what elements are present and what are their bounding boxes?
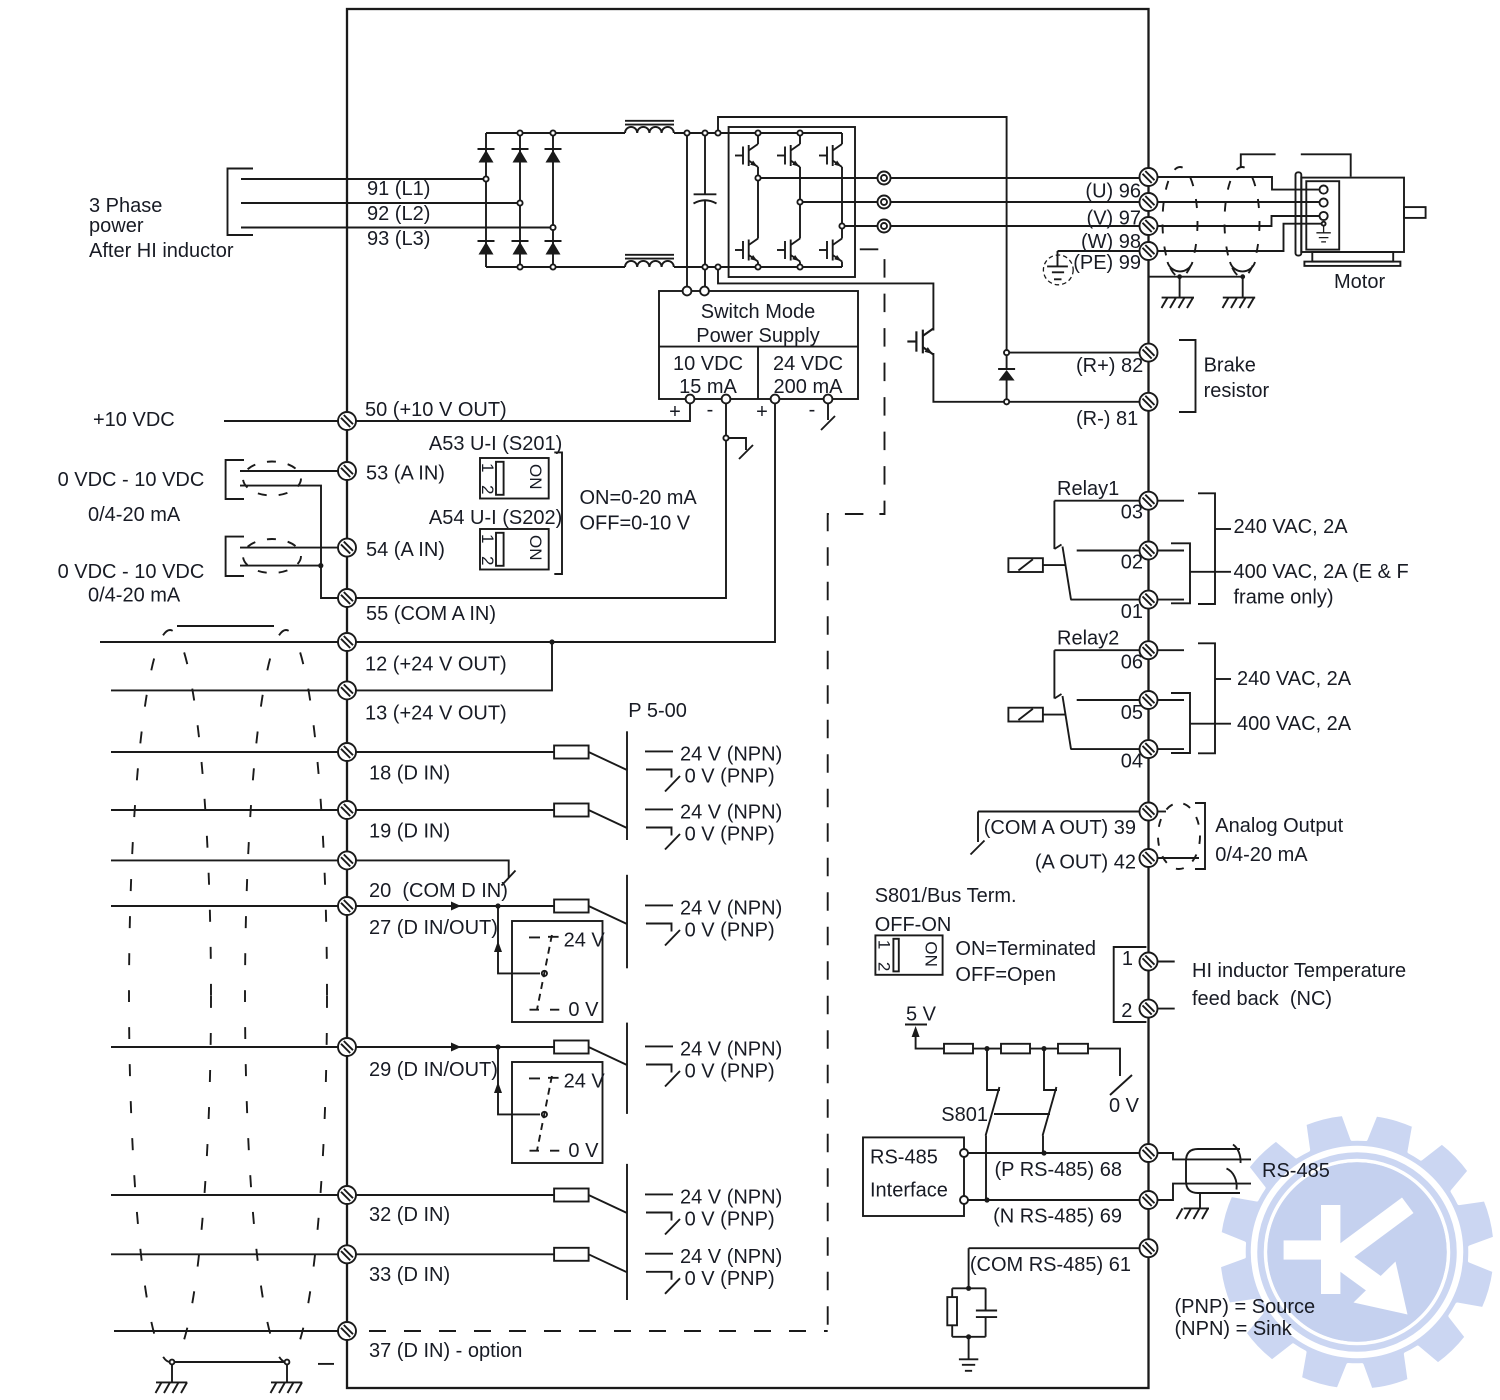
- svg-text:93 (L3): 93 (L3): [367, 228, 430, 250]
- svg-text:-: -: [809, 399, 816, 421]
- svg-text:240 VAC, 2A: 240 VAC, 2A: [1237, 668, 1352, 690]
- svg-text:ON: ON: [526, 464, 545, 490]
- svg-text:(W) 98: (W) 98: [1081, 231, 1141, 253]
- svg-text:(R+) 82: (R+) 82: [1076, 355, 1143, 377]
- svg-text:0 VDC - 10 VDC: 0 VDC - 10 VDC: [58, 561, 205, 583]
- svg-text:+: +: [756, 401, 768, 423]
- svg-text:24 VDC: 24 VDC: [773, 353, 843, 375]
- svg-text:(U) 96: (U) 96: [1085, 181, 1141, 203]
- svg-text:24 V (NPN): 24 V (NPN): [680, 1187, 782, 1209]
- svg-text:0 V (PNP): 0 V (PNP): [685, 920, 775, 942]
- svg-text:37 (D IN) - option: 37 (D IN) - option: [369, 1340, 522, 1362]
- svg-text:(NPN) = Sink: (NPN) = Sink: [1175, 1318, 1293, 1340]
- svg-text:2: 2: [1121, 1000, 1132, 1022]
- svg-text:Analog Output: Analog Output: [1215, 815, 1343, 837]
- svg-text:Power Supply: Power Supply: [696, 325, 819, 347]
- svg-text:(A OUT) 42: (A OUT) 42: [1035, 852, 1136, 874]
- svg-text:0 V: 0 V: [568, 1140, 599, 1162]
- svg-text:-: -: [707, 399, 714, 421]
- svg-text:0 V (PNP): 0 V (PNP): [685, 824, 775, 846]
- svg-text:(PNP) = Source: (PNP) = Source: [1175, 1296, 1316, 1318]
- svg-text:S801: S801: [941, 1104, 988, 1126]
- svg-text:2: 2: [874, 962, 893, 971]
- svg-text:Motor: Motor: [1334, 271, 1385, 293]
- svg-text:0 V: 0 V: [1109, 1095, 1140, 1117]
- svg-text:resistor: resistor: [1204, 380, 1270, 402]
- svg-text:(COM RS-485) 61: (COM RS-485) 61: [970, 1254, 1131, 1276]
- svg-text:Relay2: Relay2: [1057, 628, 1119, 650]
- svg-text:(PE) 99: (PE) 99: [1073, 252, 1141, 274]
- svg-text:27 (D IN/OUT): 27 (D IN/OUT): [369, 917, 498, 939]
- svg-text:After HI inductor: After HI inductor: [89, 240, 234, 262]
- svg-text:3 Phase: 3 Phase: [89, 195, 162, 217]
- svg-text:05: 05: [1121, 702, 1143, 724]
- svg-text:32 (D IN): 32 (D IN): [369, 1204, 450, 1226]
- svg-text:92 (L2): 92 (L2): [367, 203, 430, 225]
- svg-text:24 V (NPN): 24 V (NPN): [680, 1039, 782, 1061]
- svg-text:2: 2: [478, 556, 497, 565]
- svg-text:0 V (PNP): 0 V (PNP): [685, 1209, 775, 1231]
- svg-text:33 (D IN): 33 (D IN): [369, 1264, 450, 1286]
- svg-text:2: 2: [478, 485, 497, 494]
- svg-text:Switch Mode: Switch Mode: [701, 301, 816, 323]
- svg-text:Interface: Interface: [870, 1180, 948, 1202]
- svg-text:13 (+24 V OUT): 13 (+24 V OUT): [365, 703, 507, 725]
- svg-text:ON=Terminated: ON=Terminated: [955, 938, 1096, 960]
- svg-text:29 (D IN/OUT): 29 (D IN/OUT): [369, 1059, 498, 1081]
- svg-text:200 mA: 200 mA: [774, 376, 844, 398]
- svg-text:18 (D IN): 18 (D IN): [369, 763, 450, 785]
- svg-text:240 VAC, 2A: 240 VAC, 2A: [1234, 516, 1349, 538]
- svg-text:+: +: [669, 401, 681, 423]
- svg-text:RS-485: RS-485: [1262, 1160, 1330, 1182]
- svg-text:400 VAC, 2A: 400 VAC, 2A: [1237, 713, 1352, 735]
- svg-text:0 V: 0 V: [568, 999, 599, 1021]
- svg-text:1: 1: [1122, 948, 1133, 970]
- svg-text:+10 VDC: +10 VDC: [93, 409, 175, 431]
- svg-text:(R-) 81: (R-) 81: [1076, 408, 1138, 430]
- svg-text:OFF=Open: OFF=Open: [955, 964, 1056, 986]
- svg-text:0 V (PNP): 0 V (PNP): [685, 766, 775, 788]
- svg-text:RS-485: RS-485: [870, 1147, 938, 1169]
- svg-text:24 V (NPN): 24 V (NPN): [680, 802, 782, 824]
- svg-text:10 VDC: 10 VDC: [673, 353, 743, 375]
- svg-text:50 (+10 V OUT): 50 (+10 V OUT): [365, 399, 507, 421]
- svg-text:400 VAC, 2A (E & F: 400 VAC, 2A (E & F: [1234, 561, 1409, 583]
- svg-text:53 (A IN): 53 (A IN): [366, 463, 445, 485]
- svg-text:1: 1: [874, 940, 893, 949]
- svg-text:24 V (NPN): 24 V (NPN): [680, 744, 782, 766]
- svg-text:ON=0-20 mA: ON=0-20 mA: [580, 487, 698, 509]
- svg-text:1: 1: [478, 463, 497, 472]
- svg-text:24 V: 24 V: [564, 930, 606, 952]
- svg-text:feed back (NC): feed back (NC): [1192, 988, 1332, 1010]
- svg-text:0/4-20 mA: 0/4-20 mA: [88, 504, 181, 526]
- svg-text:P 5-00: P 5-00: [628, 700, 687, 722]
- svg-text:ON: ON: [526, 535, 545, 561]
- svg-text:0 VDC - 10 VDC: 0 VDC - 10 VDC: [58, 469, 205, 491]
- svg-text:54 (A IN): 54 (A IN): [366, 539, 445, 561]
- svg-text:0 V (PNP): 0 V (PNP): [685, 1061, 775, 1083]
- svg-text:OFF=0-10 V: OFF=0-10 V: [580, 513, 691, 535]
- svg-text:power: power: [89, 215, 144, 237]
- svg-text:06: 06: [1121, 652, 1143, 674]
- svg-text:0/4-20 mA: 0/4-20 mA: [1215, 844, 1308, 866]
- svg-text:A54 U-I (S202): A54 U-I (S202): [429, 507, 562, 529]
- svg-text:A53 U-I (S201): A53 U-I (S201): [429, 433, 562, 455]
- svg-text:ON: ON: [921, 941, 940, 967]
- svg-text:24 V (NPN): 24 V (NPN): [680, 898, 782, 920]
- svg-text:20 (COM D IN): 20 (COM D IN): [369, 880, 508, 902]
- svg-text:12 (+24 V OUT): 12 (+24 V OUT): [365, 654, 507, 676]
- svg-text:Brake: Brake: [1204, 355, 1256, 377]
- svg-text:04: 04: [1121, 751, 1143, 773]
- svg-text:Relay1: Relay1: [1057, 478, 1119, 500]
- svg-text:24 V: 24 V: [564, 1071, 606, 1093]
- svg-text:frame only): frame only): [1234, 587, 1334, 609]
- svg-text:19 (D IN): 19 (D IN): [369, 821, 450, 843]
- svg-text:S801/Bus Term.: S801/Bus Term.: [875, 885, 1017, 907]
- svg-text:OFF-ON: OFF-ON: [875, 914, 952, 936]
- svg-text:(N RS-485) 69: (N RS-485) 69: [993, 1206, 1122, 1228]
- svg-text:55 (COM A IN): 55 (COM A IN): [366, 603, 496, 625]
- svg-text:(V) 97: (V) 97: [1087, 208, 1141, 230]
- svg-text:1: 1: [478, 534, 497, 543]
- svg-text:24 V (NPN): 24 V (NPN): [680, 1246, 782, 1268]
- svg-text:(P RS-485) 68: (P RS-485) 68: [995, 1159, 1122, 1181]
- svg-text:(COM A OUT) 39: (COM A OUT) 39: [984, 817, 1136, 839]
- svg-text:HI inductor Temperature: HI inductor Temperature: [1192, 960, 1406, 982]
- svg-text:5 V: 5 V: [906, 1003, 937, 1025]
- svg-text:01: 01: [1121, 601, 1143, 623]
- svg-text:0/4-20 mA: 0/4-20 mA: [88, 585, 181, 607]
- svg-text:0 V (PNP): 0 V (PNP): [685, 1268, 775, 1290]
- svg-text:91 (L1): 91 (L1): [367, 178, 430, 200]
